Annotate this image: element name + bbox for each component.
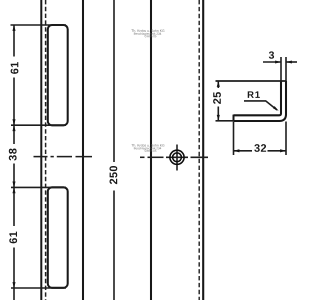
dimension line 250: [113, 0, 115, 300]
left view: hidden bend line (dashed): [45, 0, 47, 300]
watermark text lower: [131, 144, 164, 152]
32 dim extension lines: [234, 122, 287, 156]
left view: strip right edge: [82, 0, 84, 300]
extension line top of slot2: [11, 186, 66, 188]
left view: strip left edge: [40, 0, 42, 300]
extension line bottom of slot1: [11, 124, 66, 126]
middle view: right edge: [202, 0, 204, 300]
middle view: left edge: [150, 0, 152, 300]
arrowheads left dim chain: [12, 25, 15, 288]
3 dim extension lines: [281, 57, 286, 81]
watermark text upper: [131, 29, 164, 37]
3 dim line: [263, 61, 297, 63]
label 3: [269, 51, 274, 58]
25 dim extension lines: [216, 80, 287, 82]
hole horizontal centerline: [140, 156, 208, 158]
extension line bottom of slot2: [11, 287, 66, 289]
R1 leader arrowhead: [273, 106, 279, 111]
32 dim arrows: [234, 149, 287, 152]
cross-section left end: [233, 115, 235, 122]
label 250: [110, 166, 118, 184]
cross-section outline: [234, 81, 282, 115]
label 61 upper: [11, 62, 19, 74]
R1 leader line: [244, 101, 277, 110]
extension line top of slot1: [11, 24, 67, 26]
hole outer circle: [170, 150, 184, 164]
32 dim line: [234, 150, 286, 152]
middle view: hidden line (dashed): [198, 0, 200, 300]
label R1: [248, 91, 260, 98]
3 dim arrows: [275, 60, 292, 63]
hole vertical centerline: [176, 145, 178, 171]
slot 2 (rounded): [48, 187, 68, 287]
label 61 lower: [9, 232, 17, 244]
slot 1 (rounded): [48, 25, 68, 125]
hole inner circle: [173, 153, 182, 162]
left view hole centerline: [34, 156, 93, 158]
label 38: [9, 148, 17, 160]
dimension line 61/38/61: [13, 25, 15, 300]
label 25: [213, 92, 221, 104]
label 32: [254, 144, 266, 152]
25 dim arrows: [217, 81, 220, 121]
25 dim line: [217, 81, 219, 121]
